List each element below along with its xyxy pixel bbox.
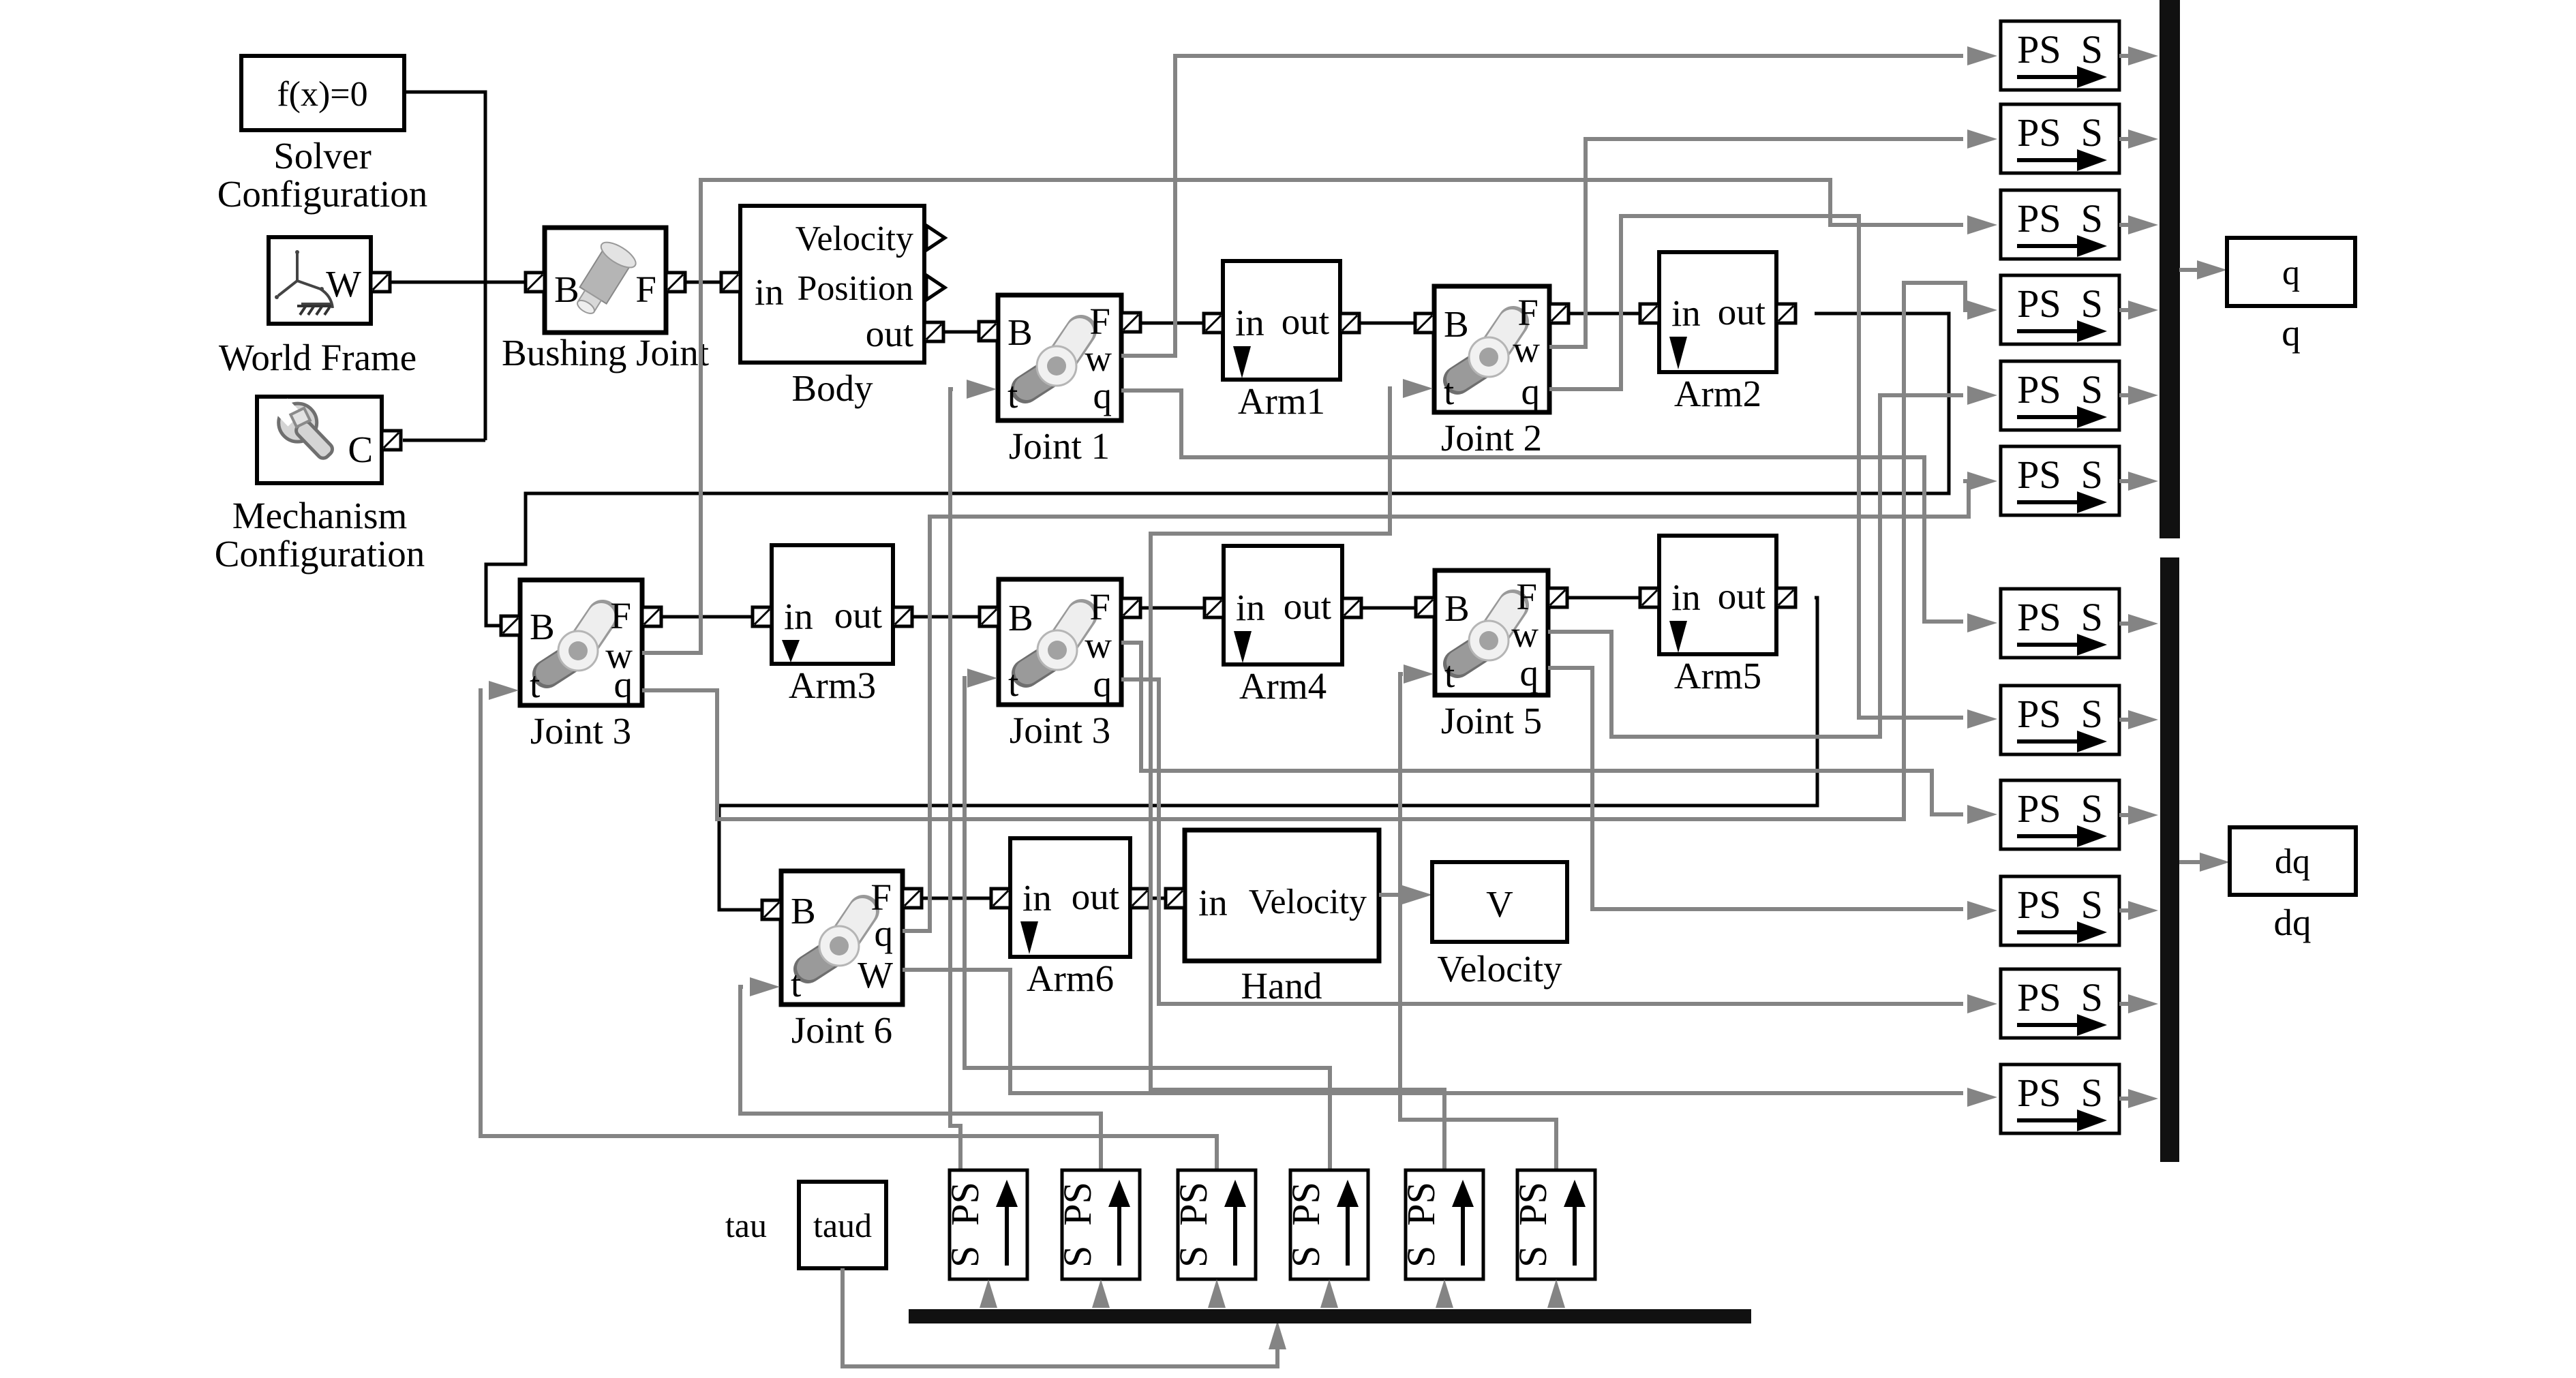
S-PS converter block S1 xyxy=(950,1170,1027,1279)
svg-text:Mechanism: Mechanism xyxy=(232,495,408,536)
wire PS-S B6 to dq-mux bar xyxy=(2119,1097,2138,1101)
block Solver Configuration f(x)=0 xyxy=(241,56,404,130)
svg-text:PS S: PS S xyxy=(2017,196,2103,241)
block Bushing Joint xyxy=(545,228,666,333)
wire bushing F to body in xyxy=(685,281,721,284)
svg-text:out: out xyxy=(1282,301,1329,342)
svg-text:F: F xyxy=(870,876,892,918)
svg-text:q: q xyxy=(1520,652,1539,694)
svg-text:PS S: PS S xyxy=(2017,975,2103,1020)
wire PS-S B5 to dq-mux bar xyxy=(2119,1002,2138,1006)
svg-text:Arm6: Arm6 xyxy=(1027,958,1114,999)
Joint 2 port F xyxy=(1549,304,1569,323)
svg-text:B: B xyxy=(1444,303,1469,345)
demux bar arrow to S-PS S5 xyxy=(1436,1279,1453,1308)
svg-text:in: in xyxy=(1235,302,1264,343)
svg-text:B: B xyxy=(791,890,816,932)
svg-text:S PS: S PS xyxy=(1399,1182,1443,1268)
PS-S converter block B1 xyxy=(2001,589,2119,658)
wire joint6 q to PS-S T6 xyxy=(903,481,1969,931)
PS-S converter block T6 xyxy=(2001,446,2119,515)
PS-S converter block B6 xyxy=(2001,1065,2119,1133)
wire joint3 q to PS-S T4 xyxy=(642,283,1965,819)
joint block Joint 3 xyxy=(999,579,1121,705)
S-PS converter block S3 xyxy=(1178,1170,1256,1279)
wire joint6 W to PS-S B6 xyxy=(903,970,1963,1093)
wire joint1 q to PS-S B1 xyxy=(1121,391,1963,622)
svg-text:Joint 3: Joint 3 xyxy=(1010,709,1110,751)
Joint 2 port B xyxy=(1415,313,1434,333)
svg-text:q: q xyxy=(1093,663,1112,705)
joint block Joint 1 xyxy=(998,295,1121,420)
Joint 3 port F xyxy=(642,607,661,626)
svg-text:V: V xyxy=(1486,883,1513,925)
wire body out to joint1 B xyxy=(943,331,980,334)
svg-text:Arm5: Arm5 xyxy=(1674,655,1761,696)
svg-text:in: in xyxy=(1022,877,1052,919)
svg-text:F: F xyxy=(1089,301,1110,342)
svg-text:dq: dq xyxy=(2274,902,2312,943)
svg-text:F: F xyxy=(1517,292,1539,333)
svg-text:in: in xyxy=(1236,587,1265,628)
svg-text:PS S: PS S xyxy=(2017,786,2103,831)
svg-text:Joint 5: Joint 5 xyxy=(1441,700,1542,741)
svg-text:F: F xyxy=(1089,586,1110,628)
demux bar arrow to S-PS S6 xyxy=(1547,1279,1565,1308)
wire arm6 out to hand in xyxy=(1149,897,1166,900)
arm block Arm3 xyxy=(772,545,893,664)
world frame icon xyxy=(278,254,333,308)
svg-text:B: B xyxy=(1007,311,1033,353)
svg-text:Joint 6: Joint 6 xyxy=(791,1009,892,1051)
S-PS converter block S4 xyxy=(1290,1170,1368,1279)
Arm6 port out xyxy=(1130,889,1149,908)
svg-text:Hand: Hand xyxy=(1241,965,1322,1007)
wire joint3 F to arm3 in xyxy=(661,615,753,619)
svg-text:Velocity: Velocity xyxy=(1437,948,1562,990)
PS-S converter block B2 xyxy=(2001,686,2119,754)
block Body xyxy=(740,206,924,363)
Body port in xyxy=(721,273,740,292)
svg-text:Velocity: Velocity xyxy=(1249,883,1367,921)
svg-text:S PS: S PS xyxy=(1055,1182,1100,1268)
svg-text:q: q xyxy=(614,664,633,705)
mechanism config wrench icon xyxy=(267,392,343,468)
wire PS-S B1 to dq-mux bar xyxy=(2119,622,2138,626)
svg-text:PS S: PS S xyxy=(2017,110,2103,155)
Bushing Joint port F xyxy=(666,273,685,292)
svg-text:World Frame: World Frame xyxy=(219,337,416,378)
svg-text:in: in xyxy=(784,596,813,637)
PS-S converter block T2 xyxy=(2001,104,2119,173)
Joint 3 port B xyxy=(980,607,999,626)
arm block Arm4 xyxy=(1224,546,1342,664)
arm block Arm5 xyxy=(1659,536,1776,654)
svg-text:out: out xyxy=(866,313,913,354)
svg-text:B: B xyxy=(1444,587,1470,629)
wire arm2 out to joint3 B (row2) xyxy=(486,313,1949,626)
block Hand xyxy=(1185,830,1379,961)
svg-text:taud: taud xyxy=(813,1206,872,1244)
wire S-PS S3 to joint3 t input xyxy=(481,690,1217,1170)
svg-text:Arm2: Arm2 xyxy=(1674,373,1761,414)
svg-text:PS S: PS S xyxy=(2017,453,2103,497)
PS-S converter block T4 xyxy=(2001,275,2119,344)
wire joint6 F to arm6 in xyxy=(922,897,991,900)
S-PS converter block S2 xyxy=(1062,1170,1140,1279)
Joint 6 port B xyxy=(762,900,781,919)
wire PS-S B3 to dq-mux bar xyxy=(2119,813,2138,817)
Joint 1 port B xyxy=(979,322,998,341)
Arm1 port out xyxy=(1340,313,1359,333)
svg-text:t: t xyxy=(1008,662,1018,704)
block V (Velocity scope) xyxy=(1432,862,1567,942)
svg-text:t: t xyxy=(530,664,540,705)
svg-text:Bushing Joint: Bushing Joint xyxy=(502,332,709,373)
svg-text:F: F xyxy=(1516,576,1537,617)
svg-text:PS S: PS S xyxy=(2017,692,2103,736)
torque demux bar xyxy=(909,1309,1751,1323)
svg-text:q: q xyxy=(1093,375,1112,416)
Joint 3 port B xyxy=(501,616,520,635)
S-PS converter block S6 xyxy=(1517,1170,1595,1279)
svg-text:Joint 2: Joint 2 xyxy=(1441,417,1542,459)
svg-text:Configuration: Configuration xyxy=(217,173,428,215)
svg-text:W: W xyxy=(858,954,893,996)
Arm1 port in xyxy=(1204,313,1223,333)
wire S-PS S4 to joint4 t input xyxy=(965,678,1330,1170)
World Frame port W xyxy=(371,273,390,292)
wire joint2 F to arm2 in xyxy=(1569,312,1640,316)
svg-text:F: F xyxy=(635,269,656,310)
wire joint3 w to PS-S T3 xyxy=(642,180,1963,653)
arm block Arm2 xyxy=(1659,252,1776,372)
wire arm5 out to joint6 B (row3) xyxy=(719,598,1817,910)
svg-text:f(x)=0: f(x)=0 xyxy=(277,75,367,114)
svg-text:PS S: PS S xyxy=(2017,1071,2103,1115)
joint block Joint 6 xyxy=(781,871,903,1005)
Body PS port Velocity (unconnected) xyxy=(926,226,945,250)
svg-text:S PS: S PS xyxy=(1511,1182,1555,1268)
svg-text:t: t xyxy=(791,963,801,1005)
svg-text:t: t xyxy=(1444,371,1454,412)
S-PS converter block S5 xyxy=(1406,1170,1483,1279)
svg-text:out: out xyxy=(834,594,882,636)
block World Frame xyxy=(269,237,371,324)
svg-text:B: B xyxy=(554,269,579,310)
svg-text:q: q xyxy=(2282,312,2301,354)
PS-S converter block B5 xyxy=(2001,969,2119,1038)
svg-text:w: w xyxy=(1513,328,1540,370)
wire PS-S T5 to q-mux bar xyxy=(2119,393,2138,397)
wire mechanism config C to node xyxy=(403,439,485,442)
svg-text:PS S: PS S xyxy=(2017,883,2103,927)
arm block Arm1 xyxy=(1223,261,1340,380)
svg-text:W: W xyxy=(326,263,361,305)
wire PS-S T2 to q-mux bar xyxy=(2119,137,2138,141)
wire joint4 q to PS-S B5 xyxy=(1121,679,1963,1004)
wire S-PS S2 to joint6 t input xyxy=(740,987,1101,1170)
wire S-PS S6 to joint5 t input xyxy=(1400,674,1556,1170)
wire joint5 w to PS-S T5 xyxy=(1548,395,1963,737)
block dq display xyxy=(2230,827,2356,895)
wire joint1 w to PS-S T1 xyxy=(1121,56,1963,356)
svg-text:S PS: S PS xyxy=(1284,1182,1328,1268)
svg-text:Position: Position xyxy=(798,269,914,308)
block q display xyxy=(2227,238,2355,306)
svg-text:C: C xyxy=(348,429,373,470)
wire world frame to bushing joint B xyxy=(390,281,526,284)
wire q-mux to q display xyxy=(2179,268,2197,272)
PS-S converter block T5 xyxy=(2001,361,2119,430)
wire dq-mux to dq display xyxy=(2179,860,2200,864)
Bushing Joint port B xyxy=(526,273,545,292)
Arm3 port in xyxy=(753,607,772,626)
svg-text:Arm4: Arm4 xyxy=(1239,665,1327,707)
demux bar arrow to S-PS S3 xyxy=(1208,1279,1226,1308)
svg-text:in: in xyxy=(1671,292,1701,334)
arm block Arm6 xyxy=(1010,838,1130,957)
svg-text:t: t xyxy=(1007,374,1018,416)
svg-text:PS S: PS S xyxy=(2017,281,2103,326)
Arm3 port out xyxy=(893,607,912,626)
wire arm4 out to joint5 B xyxy=(1361,607,1416,610)
wire joint2 q to PS-S B2 xyxy=(1549,216,1963,718)
svg-text:PS S: PS S xyxy=(2017,367,2103,412)
PS-S converter block T1 xyxy=(2001,21,2119,90)
svg-text:Configuration: Configuration xyxy=(215,533,425,575)
wire solver-config to network node xyxy=(404,92,485,440)
Body PS port Position (unconnected) xyxy=(926,275,945,300)
wire PS-S T6 to q-mux bar xyxy=(2119,479,2138,483)
wire S-PS S1 to joint1 t input xyxy=(950,389,960,1170)
wire hand velocity to V scope xyxy=(1379,893,1409,897)
Joint 6 port F xyxy=(903,889,922,908)
wire arm3 out to joint4 B xyxy=(912,615,980,619)
Joint 3 port F xyxy=(1121,598,1140,617)
Joint 1 port F xyxy=(1121,313,1140,332)
Hand port in xyxy=(1166,889,1185,908)
svg-text:Arm3: Arm3 xyxy=(789,664,876,706)
svg-text:out: out xyxy=(1284,585,1331,627)
svg-text:q: q xyxy=(1521,371,1541,412)
svg-text:in: in xyxy=(1671,577,1701,618)
svg-text:q: q xyxy=(875,913,894,954)
wire joint2 w to PS-S T2 xyxy=(1549,139,1963,347)
joint block Joint 2 xyxy=(1434,286,1549,412)
svg-text:Arm1: Arm1 xyxy=(1238,380,1325,422)
demux bar arrow to S-PS S4 xyxy=(1320,1279,1338,1308)
svg-text:F: F xyxy=(610,595,631,637)
dq mux bar xyxy=(2160,557,2179,1162)
svg-text:w: w xyxy=(1085,624,1112,666)
svg-text:Velocity: Velocity xyxy=(795,219,913,258)
svg-text:t: t xyxy=(1444,654,1455,695)
Joint 5 port B xyxy=(1416,598,1435,617)
block Mechanism Configuration xyxy=(257,397,382,483)
svg-text:S PS: S PS xyxy=(943,1182,987,1268)
svg-text:Joint 1: Joint 1 xyxy=(1009,425,1110,467)
joint block Joint 3 xyxy=(520,580,642,705)
wire S-PS S5 to joint2 t input xyxy=(1151,388,1444,1170)
svg-text:Joint 3: Joint 3 xyxy=(530,710,631,752)
svg-text:dq: dq xyxy=(2275,842,2310,881)
Arm6 port in xyxy=(991,889,1010,908)
wire joint1 F to arm1 in xyxy=(1140,322,1204,325)
wire PS-S T1 to q-mux bar xyxy=(2119,54,2138,58)
Body port out xyxy=(924,322,943,341)
wire PS-S B2 to dq-mux bar xyxy=(2119,718,2138,722)
svg-text:out: out xyxy=(1718,291,1766,333)
wire joint4 F to arm4 in xyxy=(1140,607,1204,610)
svg-text:in: in xyxy=(755,271,784,313)
Arm4 port out xyxy=(1342,598,1361,617)
PS-S converter block B3 xyxy=(2001,780,2119,849)
Arm5 port in xyxy=(1640,588,1659,607)
svg-text:in: in xyxy=(1198,882,1228,923)
svg-text:out: out xyxy=(1072,876,1119,917)
q mux bar xyxy=(2160,0,2180,538)
svg-text:Body: Body xyxy=(791,367,873,409)
svg-text:PS S: PS S xyxy=(2017,595,2103,639)
Arm2 port out xyxy=(1776,304,1795,323)
Arm2 port in xyxy=(1640,304,1659,323)
svg-text:out: out xyxy=(1718,575,1766,617)
Mechanism Configuration port C xyxy=(382,431,401,450)
svg-text:q: q xyxy=(2282,254,2300,292)
wire joint4 w to PS-S B3 xyxy=(1121,643,1963,814)
wire arm1 out to joint2 B xyxy=(1359,322,1415,325)
svg-text:w: w xyxy=(1511,613,1539,655)
svg-text:Solver: Solver xyxy=(273,135,372,177)
wire PS-S T3 to q-mux bar xyxy=(2119,223,2138,227)
Arm5 port out xyxy=(1776,588,1795,607)
svg-text:w: w xyxy=(1085,337,1112,379)
demux bar arrow to S-PS S1 xyxy=(980,1279,997,1308)
svg-text:B: B xyxy=(1008,597,1033,639)
demux bar arrow to S-PS S2 xyxy=(1092,1279,1110,1308)
svg-text:S PS: S PS xyxy=(1171,1182,1215,1268)
bushing joint icon xyxy=(566,238,639,322)
PS-S converter block T3 xyxy=(2001,190,2119,259)
svg-text:tau: tau xyxy=(725,1206,767,1244)
Joint 5 port F xyxy=(1548,588,1567,607)
wire joint5 q to PS-S B4 xyxy=(1548,668,1963,909)
svg-text:PS S: PS S xyxy=(2017,27,2103,72)
PS-S converter block B4 xyxy=(2001,876,2119,945)
wire PS-S B4 to dq-mux bar xyxy=(2119,908,2138,913)
wire PS-S T4 to q-mux bar xyxy=(2119,308,2138,312)
wire taud to demux bar xyxy=(843,1268,1277,1366)
svg-text:B: B xyxy=(530,606,555,647)
Arm4 port in xyxy=(1204,598,1224,617)
wire joint5 F to arm5 in xyxy=(1567,596,1640,600)
block taud xyxy=(799,1182,886,1268)
joint block Joint 5 xyxy=(1435,570,1548,695)
